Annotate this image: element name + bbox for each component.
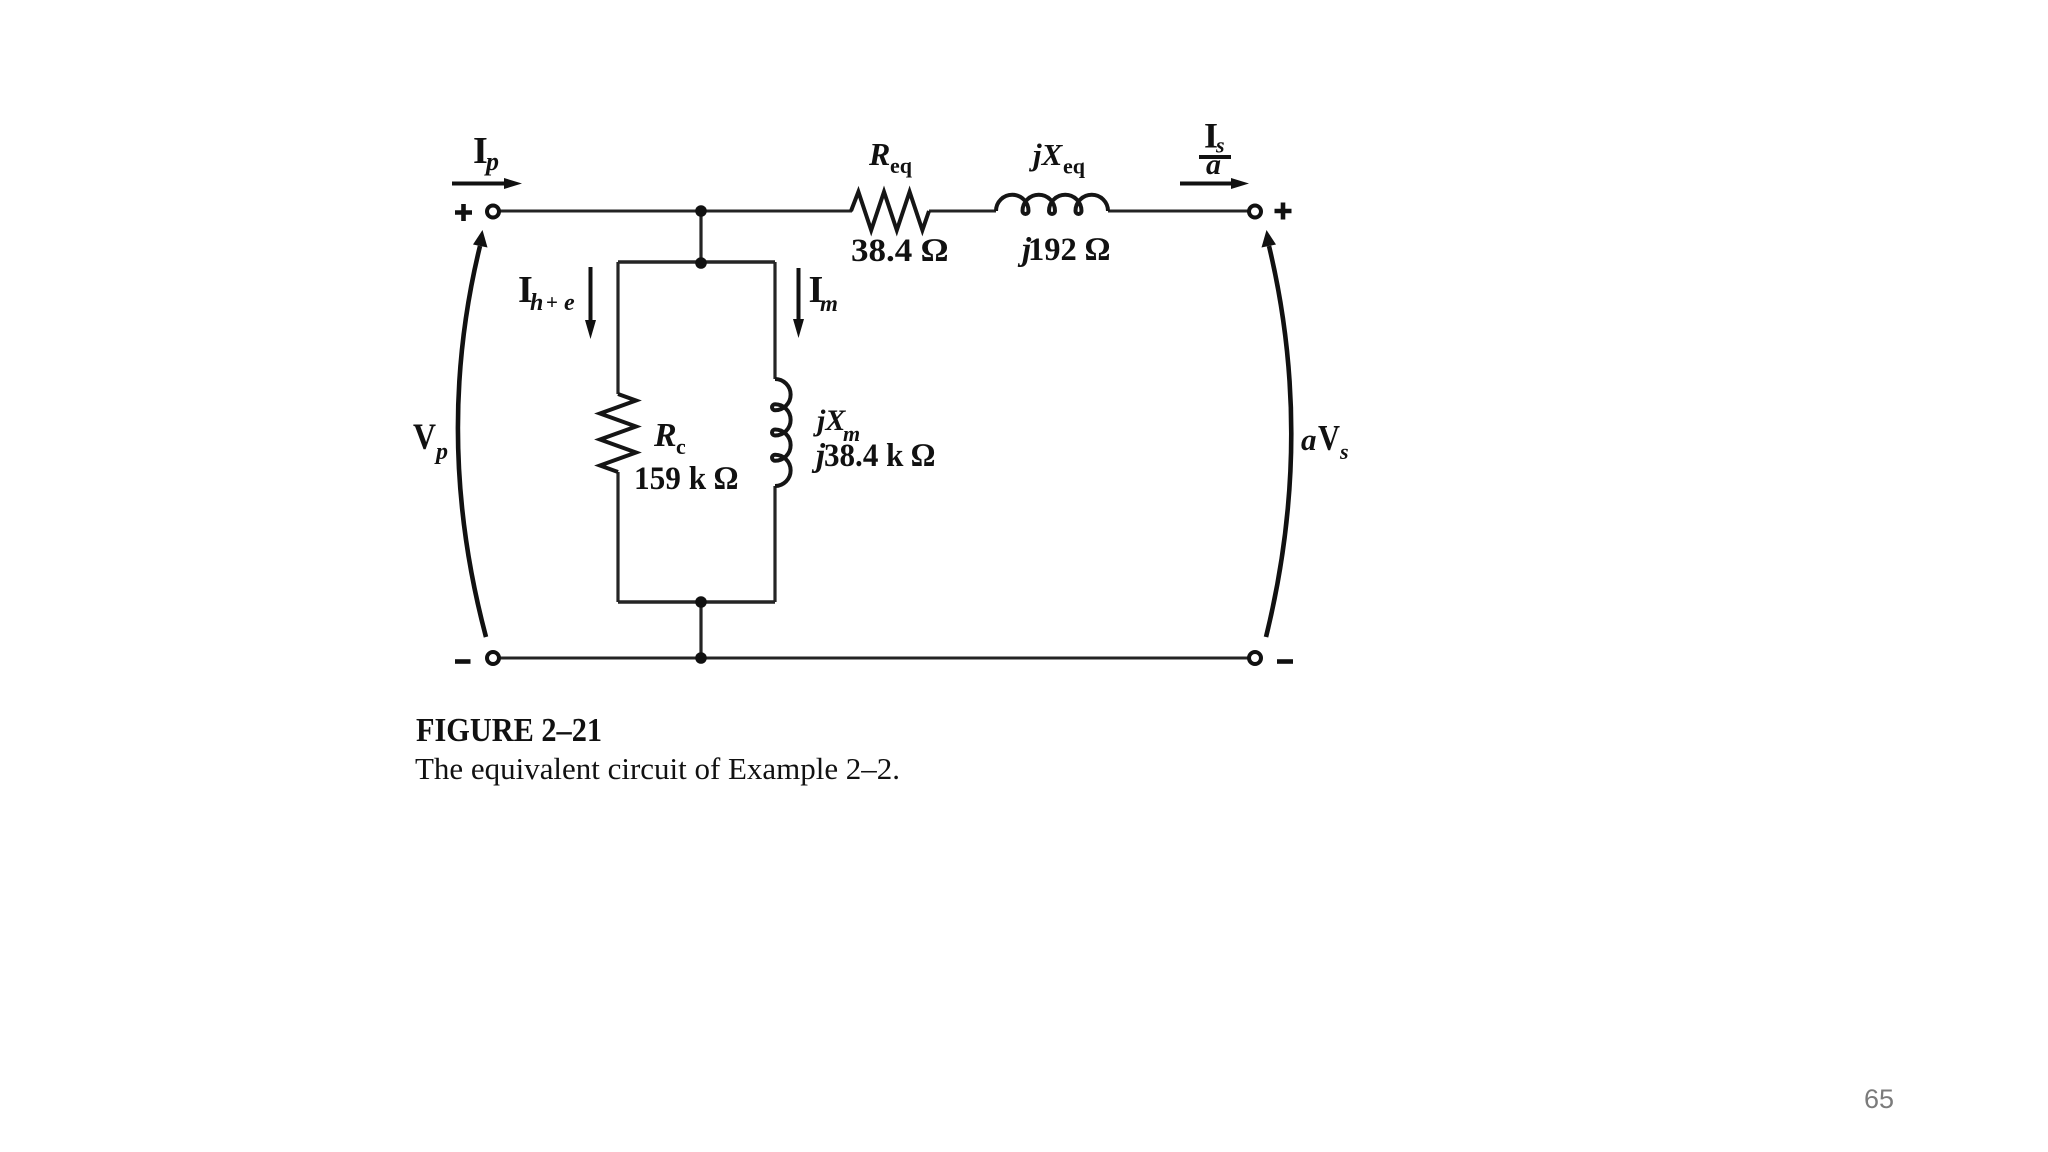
svg-text:s: s [1339, 439, 1349, 464]
node junction dot rect top [695, 257, 707, 269]
label Req [868, 136, 913, 178]
node junction dot bottom wire [695, 652, 707, 664]
svg-text:V: V [413, 417, 436, 458]
svg-text:jX: jX [813, 404, 846, 437]
arrow Im [793, 268, 804, 338]
svg-text:a: a [1301, 422, 1317, 457]
wire bottom [500, 657, 1249, 660]
label Is over a fraction [1199, 116, 1231, 182]
value 159 k ohm [634, 461, 738, 497]
label jXm [813, 404, 860, 446]
label Vp [413, 417, 448, 465]
wire node column upper [699, 211, 702, 262]
label Rc [653, 417, 686, 459]
page number [1864, 1084, 1894, 1115]
svg-text:c: c [676, 434, 686, 459]
plus sign top-right [1275, 203, 1292, 220]
wire shunt rect top edge [618, 260, 775, 263]
value 38.4 ohm [851, 233, 948, 269]
value j38.4 k ohm [811, 438, 935, 474]
svg-text:V: V [1318, 418, 1340, 458]
terminal bottom-right [1249, 652, 1261, 664]
terminal bottom-left [487, 652, 499, 664]
svg-text:R: R [653, 417, 677, 454]
svg-text:159 k Ω: 159 k Ω [634, 461, 738, 497]
terminal top-right [1249, 206, 1261, 218]
svg-text:38.4 k Ω: 38.4 k Ω [824, 438, 935, 474]
value j192 ohm [1017, 232, 1110, 268]
wire shunt rect left edge upper [616, 262, 619, 394]
arrow Is/a [1180, 178, 1249, 189]
svg-text:eq: eq [890, 153, 913, 178]
wire shunt rect right edge upper [773, 262, 776, 379]
voltage arc aVs [1262, 230, 1292, 637]
terminal top-left [487, 206, 499, 218]
wire shunt rect left edge lower [616, 472, 619, 602]
svg-text:The equivalent circuit of Exam: The equivalent circuit of Example 2–2. [415, 751, 900, 786]
node junction dot rect bottom [695, 596, 707, 608]
svg-text:FIGURE 2–21: FIGURE 2–21 [416, 712, 602, 749]
caption figure number [416, 712, 602, 749]
resistor Rc [600, 394, 636, 472]
wire between Req and jXeq [929, 210, 996, 213]
svg-text:jX: jX [1028, 137, 1064, 172]
resistor Req [851, 192, 929, 230]
minus sign bottom-left [455, 659, 471, 664]
node junction dot top [695, 205, 707, 217]
voltage arc Vp [458, 230, 488, 637]
wire jXeq to right terminal [1108, 210, 1249, 213]
label Ih+e [518, 269, 575, 316]
svg-text:38.4 Ω: 38.4 Ω [851, 233, 948, 269]
plus sign top-left [455, 204, 472, 221]
svg-text:h: h [530, 290, 543, 316]
label Im [809, 269, 838, 316]
arrow Ip [452, 178, 522, 189]
minus sign bottom-right [1277, 659, 1293, 664]
wire top-left segment [500, 210, 852, 213]
svg-text:R: R [868, 136, 890, 172]
wire node column lower [699, 602, 702, 658]
label aVs [1301, 418, 1349, 465]
inductor jXm [772, 379, 791, 486]
caption text [415, 751, 900, 786]
svg-text:+: + [546, 290, 558, 314]
svg-text:e: e [564, 290, 575, 316]
label Ip [473, 130, 499, 176]
svg-text:192 Ω: 192 Ω [1028, 232, 1110, 268]
svg-text:m: m [820, 291, 838, 316]
svg-text:eq: eq [1063, 154, 1086, 179]
wire shunt rect bottom edge [618, 600, 775, 603]
inductor jXeq [996, 195, 1108, 214]
arrow Ih+e [585, 267, 596, 339]
svg-text:p: p [434, 439, 448, 465]
svg-text:p: p [484, 147, 499, 176]
label jXeq [1028, 137, 1086, 179]
wire shunt rect right edge lower [773, 486, 776, 602]
svg-text:a: a [1206, 148, 1221, 181]
